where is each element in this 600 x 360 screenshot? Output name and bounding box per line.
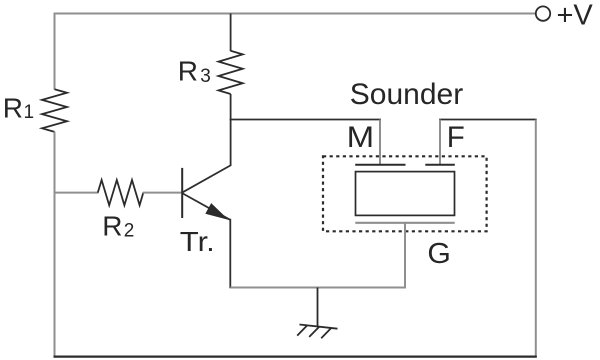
wire F terminal: [439, 120, 441, 166]
wire F terminal to right rail: [439, 119, 537, 121]
svg-text:2: 2: [124, 220, 135, 241]
resistor R3 stem top: [230, 14, 232, 52]
svg-text:3: 3: [200, 66, 211, 87]
svg-text:Tr.: Tr.: [180, 226, 215, 257]
wire left rail upper: [54, 13, 56, 90]
sounder dotted enclosure: [323, 156, 487, 231]
terminal +V circle: [536, 6, 550, 20]
transistor Tr emitter lead with arrow: [183, 193, 230, 219]
electrode plate F: [425, 164, 455, 166]
resistor R3 stem bottom: [230, 94, 232, 120]
wire base right segment: [143, 192, 182, 194]
resistor R1: [42, 89, 67, 132]
svg-text:G: G: [427, 238, 451, 270]
resistor R2: [98, 180, 144, 205]
ground symbol: [300, 325, 338, 329]
svg-text:+V: +V: [557, 0, 594, 32]
wire right rail: [535, 120, 537, 358]
wire G terminal: [404, 223, 406, 289]
wire bottom rail: [54, 356, 537, 358]
svg-text:R: R: [102, 211, 122, 242]
svg-text:1: 1: [24, 102, 35, 123]
piezo element body: [356, 172, 455, 216]
bottom electrode G plate: [355, 222, 454, 224]
electrode plate M: [355, 164, 405, 166]
ground stub: [317, 288, 319, 327]
node collector: wire to M terminal: [230, 119, 381, 121]
wire top +V rail: [54, 13, 536, 15]
svg-text:R: R: [178, 56, 198, 87]
wire emitter to G bottom horizontal: [230, 287, 406, 289]
wire M terminal: [379, 120, 381, 166]
svg-text:M: M: [347, 121, 375, 154]
svg-text:F: F: [447, 121, 465, 154]
wire base left segment: [54, 192, 99, 194]
transistor Tr base bar: [181, 168, 183, 218]
svg-text:R: R: [3, 93, 23, 124]
svg-text:Sounder: Sounder: [350, 78, 463, 111]
wire emitter down: [229, 219, 231, 288]
transistor Tr collector lead: [230, 120, 232, 166]
wire left rail lower: [54, 132, 56, 358]
resistor R3: [219, 51, 243, 94]
